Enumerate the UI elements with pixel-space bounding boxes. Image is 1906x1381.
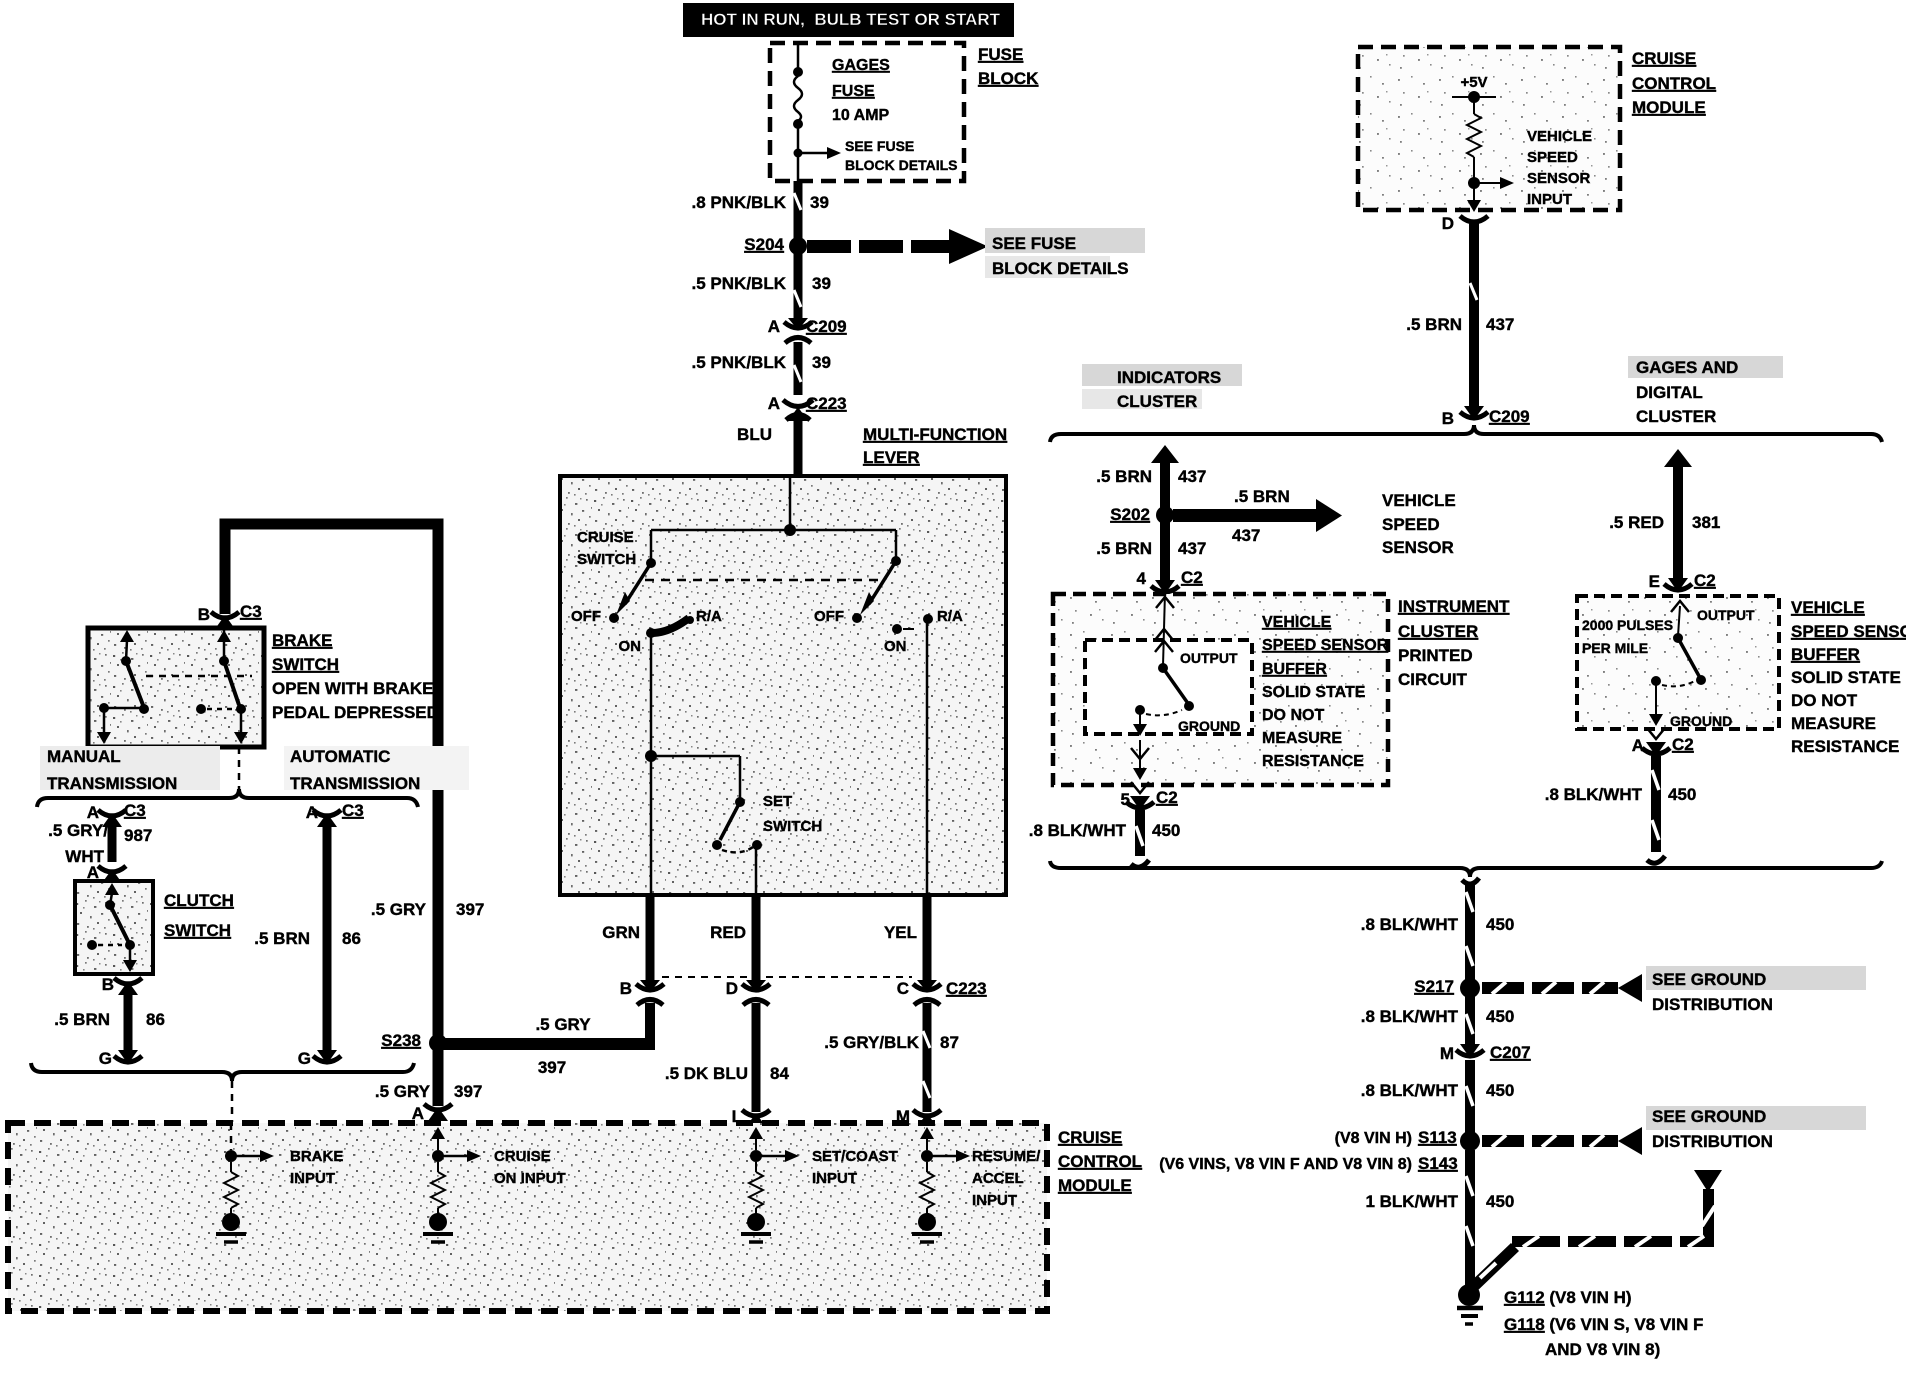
splice S113 / S143 labels [1159, 1128, 1458, 1173]
svg-text:CRUISE: CRUISE [577, 529, 634, 546]
svg-text:.5 BRN: .5 BRN [1096, 467, 1152, 486]
svg-text:DISTRIBUTION: DISTRIBUTION [1652, 1132, 1773, 1151]
svg-text:FUSE: FUSE [978, 45, 1023, 64]
wire gages buffer ground out [1647, 683, 1665, 739]
svg-text:FUSE: FUSE [832, 83, 875, 100]
svg-text:.5 PNK/BLK: .5 PNK/BLK [692, 274, 787, 293]
node vss input tap [1468, 177, 1514, 189]
label G112 G118 [1504, 1288, 1703, 1359]
label SEE GROUND DISTRIBUTION (S113) [1646, 1106, 1866, 1151]
wire branch to set switch [651, 756, 740, 800]
svg-text:GAGES: GAGES [832, 57, 890, 74]
svg-text:DO NOT: DO NOT [1791, 691, 1858, 710]
svg-text:2000 PULSES: 2000 PULSES [1582, 617, 1673, 633]
svg-text:SET: SET [763, 793, 792, 810]
wire .5 DK BLU 84 [665, 1003, 790, 1112]
connector C3 pin A (manual) [87, 801, 153, 845]
svg-text:GRN: GRN [602, 923, 640, 942]
svg-text:INPUT: INPUT [1527, 191, 1572, 208]
multi-function lever box [560, 476, 1006, 895]
cruise control module box (bottom) [8, 1123, 1047, 1311]
svg-text:MODULE: MODULE [1632, 98, 1706, 117]
svg-text:437: 437 [1232, 526, 1260, 545]
label CRUISE ON INPUT [494, 1148, 566, 1187]
wire .5 BRN 437 (to C209) [1406, 222, 1514, 408]
connector C3 pin A (automatic) [306, 801, 364, 827]
wire .8 BLK/WHT 450 (C207 to S113) [1361, 1060, 1515, 1133]
connector C2 pin E [1649, 571, 1716, 592]
svg-text:SEE GROUND: SEE GROUND [1652, 1107, 1766, 1126]
svg-text:S238: S238 [381, 1031, 421, 1050]
connector pin G (automatic) [298, 1049, 341, 1068]
svg-text:PEDAL DEPRESSED: PEDAL DEPRESSED [272, 703, 439, 722]
wire YEL [884, 895, 927, 982]
svg-text:B: B [620, 979, 632, 998]
svg-text:CONTROL: CONTROL [1632, 74, 1716, 93]
svg-text:381: 381 [1692, 513, 1720, 532]
connector pin A (clutch switch) [87, 863, 126, 883]
svg-text:INPUT: INPUT [972, 1192, 1017, 1209]
svg-text:.5 BRN: .5 BRN [1234, 487, 1290, 506]
splice S204 [744, 235, 807, 255]
connector C209 pin B [1442, 406, 1530, 428]
clutch switch contacts [87, 883, 137, 972]
svg-text:DIGITAL: DIGITAL [1636, 383, 1703, 402]
svg-text:BUFFER: BUFFER [1262, 661, 1327, 678]
svg-text:.5 DK BLU: .5 DK BLU [665, 1064, 748, 1083]
svg-text:B: B [102, 975, 114, 994]
svg-text:MODULE: MODULE [1058, 1176, 1132, 1195]
svg-text:MULTI-FUNCTION: MULTI-FUNCTION [863, 425, 1007, 444]
svg-text:S143: S143 [1418, 1154, 1458, 1173]
svg-text:SPEED SENSOR: SPEED SENSOR [1262, 637, 1389, 654]
wire .5 GRY 397 horizontal from S238 [434, 1015, 654, 1077]
cruise switch left pole [609, 530, 694, 638]
connector pin G (manual) [99, 1049, 142, 1068]
svg-text:.5 GRY: .5 GRY [375, 1082, 431, 1101]
connector C223 pin B [620, 979, 664, 1005]
svg-text:R/A: R/A [937, 608, 963, 625]
svg-text:.8 BLK/WHT: .8 BLK/WHT [1029, 821, 1127, 840]
svg-text:OUTPUT: OUTPUT [1180, 650, 1238, 666]
svg-text:437: 437 [1178, 467, 1206, 486]
power label HOT IN RUN BULB TEST OR START [683, 3, 1014, 37]
label SET SWITCH [763, 793, 822, 835]
wire buffer ground out [1131, 712, 1149, 793]
svg-text:DISTRIBUTION: DISTRIBUTION [1652, 995, 1773, 1014]
svg-text:+5V: +5V [1460, 74, 1487, 91]
brake switch left pole [97, 630, 149, 744]
wire .5 BRN 437 (indicators feed) [1096, 445, 1206, 582]
svg-text:ON: ON [884, 638, 907, 655]
cruise control module box (top right) [1358, 47, 1620, 210]
wire .5 BRN 86 (manual) [54, 988, 165, 1052]
connector pin L [732, 1107, 770, 1127]
wire RED [710, 895, 756, 982]
svg-text:84: 84 [770, 1064, 789, 1083]
wire .8 BLK/WHT 450 (S217 to C207) [1361, 996, 1515, 1046]
svg-text:.8 BLK/WHT: .8 BLK/WHT [1361, 1081, 1459, 1100]
svg-text:87: 87 [940, 1033, 959, 1052]
svg-text:CRUISE: CRUISE [1632, 49, 1696, 68]
wire .5 GRY 397 main run (L shape + down to module) [225, 524, 484, 1106]
svg-text:SEE GROUND: SEE GROUND [1652, 970, 1766, 989]
svg-text:.8 BLK/WHT: .8 BLK/WHT [1545, 785, 1643, 804]
svg-text:OUTPUT: OUTPUT [1697, 607, 1755, 623]
svg-text:S204: S204 [744, 235, 784, 254]
svg-text:C223: C223 [946, 979, 987, 998]
svg-text:VEHICLE: VEHICLE [1382, 491, 1456, 510]
svg-text:RED: RED [710, 923, 746, 942]
label VEHICLE SPEED SENSOR BUFFER SOLID STATE... (right) [1791, 598, 1906, 756]
svg-text:.5 BRN: .5 BRN [254, 929, 310, 948]
label MULTI-FUNCTION LEVER [863, 425, 1007, 467]
label GAGES AND DIGITAL CLUSTER [1628, 356, 1783, 426]
svg-text:C2: C2 [1694, 571, 1716, 590]
svg-text:CLUSTER: CLUSTER [1117, 392, 1197, 411]
svg-text:SPEED: SPEED [1382, 515, 1440, 534]
svg-text:397: 397 [538, 1058, 566, 1077]
dashed wire brace to module [231, 1081, 234, 1122]
svg-text:SWITCH: SWITCH [272, 655, 339, 674]
arrow .5 BRN 437 to vehicle speed sensor [1173, 487, 1342, 545]
svg-text:MEASURE: MEASURE [1791, 714, 1876, 733]
svg-text:SOLID STATE: SOLID STATE [1262, 684, 1366, 701]
svg-text:C3: C3 [124, 801, 146, 820]
connector C207 pin M [1440, 1043, 1531, 1063]
brake switch box [88, 628, 264, 747]
clutch switch box [75, 881, 153, 974]
connector C3 pin B [198, 602, 262, 629]
svg-text:450: 450 [1152, 821, 1180, 840]
svg-text:PRINTED: PRINTED [1398, 646, 1473, 665]
svg-text:BRAKE: BRAKE [290, 1148, 343, 1165]
label BRAKE INPUT [290, 1148, 343, 1187]
wire .5 GRY/BLK 87 [824, 1003, 959, 1112]
svg-text:4: 4 [1137, 569, 1147, 588]
wire .8 BLK/WHT 450 (cluster ground) [1029, 810, 1181, 867]
svg-text:OFF: OFF [814, 608, 844, 625]
svg-text:ON: ON [619, 638, 642, 655]
svg-text:SENSOR: SENSOR [1382, 538, 1454, 557]
svg-text:10 AMP: 10 AMP [832, 107, 890, 124]
connector pin M [896, 1107, 941, 1127]
svg-text:437: 437 [1178, 539, 1206, 558]
svg-text:SWITCH: SWITCH [763, 818, 822, 835]
wire .5 PNK/BLK 39 (lower) [794, 342, 801, 395]
svg-text:ACCEL: ACCEL [972, 1170, 1024, 1187]
svg-text:.5 GRY: .5 GRY [371, 900, 427, 919]
svg-text:SEE FUSE: SEE FUSE [992, 234, 1076, 253]
wire fuse to box bottom [797, 124, 800, 181]
svg-text:BLU: BLU [737, 425, 772, 444]
svg-text:TRANSMISSION: TRANSMISSION [290, 774, 420, 793]
arrow see fuse block details (inside) [798, 138, 958, 173]
svg-text:(V6 VINS, V8 VIN F AND V8 VIN: (V6 VINS, V8 VIN F AND V8 VIN 8) [1159, 1156, 1412, 1173]
svg-text:CLUTCH: CLUTCH [164, 891, 234, 910]
labels OFF ON R/A (right) [814, 608, 963, 655]
svg-text:450: 450 [1668, 785, 1696, 804]
label INSTRUMENT CLUSTER PRINTED CIRCUIT [1398, 597, 1510, 689]
wire .8 PNK/BLK 39 [794, 181, 801, 240]
svg-text:CLUSTER: CLUSTER [1636, 407, 1716, 426]
svg-text:HOT IN RUN, BULB TEST OR STAR: HOT IN RUN, BULB TEST OR START [701, 10, 1001, 29]
connector pin B (clutch) [102, 975, 142, 995]
label SET/COAST INPUT [812, 1148, 898, 1187]
hatched branch to ground distribution (antenna) [1466, 1170, 1722, 1294]
wire feed inside lever box [651, 478, 896, 536]
fuse block dashed box [770, 43, 964, 181]
svg-text:G118 (V6 VIN S, V8 VIN F: G118 (V6 VIN S, V8 VIN F [1504, 1315, 1703, 1334]
svg-text:D: D [1442, 214, 1454, 233]
svg-text:INSTRUMENT: INSTRUMENT [1398, 597, 1510, 616]
label GAGES FUSE 10 AMP [832, 57, 890, 124]
svg-text:BLOCK DETAILS: BLOCK DETAILS [845, 157, 958, 173]
connector C2 pin 4 [1137, 568, 1203, 594]
svg-text:C2: C2 [1672, 735, 1694, 754]
connector C223 pin D [726, 979, 770, 1005]
svg-text:C3: C3 [342, 801, 364, 820]
svg-text:.8 BLK/WHT: .8 BLK/WHT [1361, 1007, 1459, 1026]
svg-text:39: 39 [812, 274, 831, 293]
splice S217 [1414, 977, 1480, 998]
svg-text:397: 397 [454, 1082, 482, 1101]
svg-text:.5 RED: .5 RED [1609, 513, 1664, 532]
svg-text:INPUT: INPUT [290, 1170, 335, 1187]
svg-text:C: C [897, 979, 909, 998]
wire .8 BLK/WHT 450 (gages ground) [1545, 756, 1697, 863]
svg-text:D: D [726, 979, 738, 998]
svg-text:SPEED: SPEED [1527, 149, 1578, 166]
buffer switch [1135, 663, 1194, 715]
wire B down to S238 run [645, 1003, 655, 1050]
brace transmissions bottom [31, 1063, 414, 1081]
dashed wire below brake switch [238, 747, 241, 790]
node (see-fuse tap) [794, 149, 803, 158]
label AUTOMATIC TRANSMISSION [284, 746, 469, 793]
label VEHICLE SPEED SENSOR INPUT [1527, 128, 1592, 208]
svg-text:987: 987 [124, 826, 152, 845]
svg-text:A: A [768, 394, 780, 413]
svg-text:G: G [99, 1049, 112, 1068]
svg-text:.5 BRN: .5 BRN [1096, 539, 1152, 558]
svg-text:.5 GRY: .5 GRY [535, 1015, 591, 1034]
svg-text:CRUISE: CRUISE [1058, 1128, 1122, 1147]
vehicle speed sensor buffer box (inner) [1085, 640, 1252, 734]
brace indicators/gages section bottom [1050, 861, 1882, 877]
svg-text:CIRCUIT: CIRCUIT [1398, 670, 1468, 689]
hatched arrow see ground distribution (S217) [1482, 974, 1642, 1002]
svg-text:R/A: R/A [696, 608, 722, 625]
connector pin A (module) [424, 1104, 452, 1121]
connector C223 pin A [768, 394, 847, 421]
wire from ON contact down [645, 633, 657, 895]
svg-text:BLOCK: BLOCK [978, 69, 1039, 88]
svg-text:S202: S202 [1110, 505, 1150, 524]
svg-text:PER MILE: PER MILE [1582, 640, 1648, 656]
svg-text:.5 BRN: .5 BRN [54, 1010, 110, 1029]
svg-text:C223: C223 [806, 394, 847, 413]
svg-text:SET/COAST: SET/COAST [812, 1148, 898, 1165]
wire .5 BRN 86 (automatic) [254, 822, 361, 1052]
svg-text:GROUND: GROUND [1670, 713, 1732, 729]
hatched arrow see ground distribution (S113) [1482, 1127, 1642, 1155]
splice S113 node [1460, 1131, 1480, 1151]
svg-text:CONTROL: CONTROL [1058, 1152, 1142, 1171]
svg-text:(V8 VIN H): (V8 VIN H) [1335, 1130, 1412, 1147]
instrument cluster printed circuit box [1053, 594, 1388, 785]
brake switch link dashed [146, 675, 252, 678]
connector C223 dashed link [662, 976, 912, 978]
svg-text:OFF: OFF [571, 608, 601, 625]
svg-text:VEHICLE: VEHICLE [1262, 614, 1332, 631]
wire to pin D [1467, 183, 1481, 212]
svg-text:1 BLK/WHT: 1 BLK/WHT [1365, 1192, 1458, 1211]
wire BLU [737, 419, 798, 477]
wire .8 BLK/WHT 450 (to S217) [1361, 878, 1515, 980]
svg-text:39: 39 [810, 193, 829, 212]
svg-text:.5 PNK/BLK: .5 PNK/BLK [692, 353, 787, 372]
label SEE FUSE BLOCK DETAILS [985, 228, 1145, 278]
svg-text:MANUAL: MANUAL [47, 747, 121, 766]
svg-text:S113: S113 [1418, 1128, 1457, 1147]
svg-text:SPEED SENSOR: SPEED SENSOR [1791, 622, 1906, 641]
svg-text:E: E [1649, 572, 1660, 591]
svg-text:G: G [298, 1049, 311, 1068]
svg-text:G112 (V8 VIN H): G112 (V8 VIN H) [1504, 1288, 1632, 1307]
label .5 PNK/BLK 39 [692, 274, 831, 293]
switch link dashed line [645, 579, 884, 582]
label CRUISE SWITCH [577, 529, 636, 568]
svg-text:AUTOMATIC: AUTOMATIC [290, 747, 390, 766]
svg-text:.5 GRY/: .5 GRY/ [48, 821, 108, 840]
label VEHICLE SPEED SENSOR [1382, 491, 1456, 557]
wire 1 BLK/WHT 450 [1365, 1150, 1514, 1290]
svg-text:397: 397 [456, 900, 484, 919]
label CLUTCH SWITCH [164, 891, 234, 940]
svg-text:M: M [1440, 1044, 1454, 1063]
vehicle speed sensor buffer box (gages) [1577, 596, 1779, 729]
label MANUAL TRANSMISSION [40, 746, 220, 793]
label .8 PNK/BLK 39 [692, 193, 829, 212]
svg-text:RESISTANCE: RESISTANCE [1791, 737, 1899, 756]
label .5 PNK/BLK 39 [692, 353, 831, 372]
svg-text:GROUND: GROUND [1178, 718, 1240, 734]
brake switch right pole [196, 630, 248, 744]
dashed arrow to see fuse block details [807, 229, 988, 264]
svg-text:437: 437 [1486, 315, 1514, 334]
fuse F (GAGES FUSE 10 AMP) [793, 76, 803, 129]
svg-text:450: 450 [1486, 915, 1514, 934]
svg-text:86: 86 [146, 1010, 165, 1029]
svg-text:VEHICLE: VEHICLE [1527, 128, 1592, 145]
label 2000 PULSES PER MILE [1582, 617, 1673, 656]
resume/accel input circuit [912, 1127, 970, 1242]
connector C223 pin C [897, 979, 987, 1005]
label .5 GRY 397 / pin A at module [412, 1104, 424, 1123]
svg-text:S217: S217 [1414, 977, 1454, 996]
wire .5 PNK/BLK 39 (upper) [794, 252, 801, 320]
svg-text:TRANSMISSION: TRANSMISSION [47, 774, 177, 793]
svg-text:B: B [1442, 409, 1454, 428]
splice S202 [1110, 505, 1174, 524]
cruise switch right pole [852, 530, 933, 895]
svg-text:A: A [768, 317, 780, 336]
wire GRN [602, 895, 650, 982]
svg-text:C2: C2 [1156, 788, 1178, 807]
set/coast input circuit [741, 1127, 799, 1242]
svg-text:ON INPUT: ON INPUT [494, 1170, 566, 1187]
brace indicators/gages section top [1050, 425, 1882, 442]
label INDICATORS CLUSTER [1082, 364, 1242, 411]
svg-text:BRAKE: BRAKE [272, 631, 332, 650]
svg-text:450: 450 [1486, 1007, 1514, 1026]
svg-text:A: A [1632, 736, 1644, 755]
svg-text:450: 450 [1486, 1192, 1514, 1211]
svg-text:86: 86 [342, 929, 361, 948]
label FUSE BLOCK [978, 45, 1039, 88]
label BRAKE SWITCH OPEN WITH BRAKE PEDAL DEPRESSED [272, 631, 439, 722]
svg-text:CRUISE: CRUISE [494, 1148, 551, 1165]
svg-text:450: 450 [1486, 1081, 1514, 1100]
svg-text:GAGES AND: GAGES AND [1636, 358, 1738, 377]
svg-text:SOLID STATE: SOLID STATE [1791, 668, 1901, 687]
svg-text:AND V8 VIN 8): AND V8 VIN 8) [1545, 1340, 1660, 1359]
wire into fuse [797, 43, 800, 70]
svg-text:INPUT: INPUT [812, 1170, 857, 1187]
svg-text:.5 BRN: .5 BRN [1406, 315, 1462, 334]
splice S238 [381, 1031, 447, 1052]
svg-text:RESUME/: RESUME/ [972, 1148, 1041, 1165]
svg-text:C3: C3 [240, 602, 262, 621]
label SEE GROUND DISTRIBUTION (S217) [1646, 966, 1866, 1014]
svg-text:INDICATORS: INDICATORS [1117, 368, 1221, 387]
labels OFF ON R/A (left) [571, 608, 722, 655]
resistor (speed sensor pull-up) [1467, 97, 1481, 178]
svg-text:SWITCH: SWITCH [577, 551, 636, 568]
set switch [712, 797, 762, 895]
svg-text:C209: C209 [806, 317, 847, 336]
svg-text:C209: C209 [1489, 407, 1530, 426]
label CRUISE CONTROL MODULE (top right) [1632, 49, 1716, 117]
brake input circuit [216, 1123, 274, 1242]
svg-text:.8 PNK/BLK: .8 PNK/BLK [692, 193, 787, 212]
svg-text:SEE FUSE: SEE FUSE [845, 138, 914, 154]
node (fuse top) [793, 67, 803, 77]
svg-text:YEL: YEL [884, 923, 917, 942]
svg-text:.8 BLK/WHT: .8 BLK/WHT [1361, 915, 1459, 934]
svg-text:.5 GRY/BLK: .5 GRY/BLK [824, 1033, 919, 1052]
svg-text:39: 39 [812, 353, 831, 372]
svg-text:OPEN WITH BRAKE: OPEN WITH BRAKE [272, 679, 434, 698]
connector pin D [1442, 214, 1488, 233]
wire .5 RED 381 [1609, 449, 1720, 580]
svg-text:VEHICLE: VEHICLE [1791, 598, 1865, 617]
gages buffer switch [1651, 601, 1706, 686]
svg-text:BLOCK DETAILS: BLOCK DETAILS [992, 259, 1129, 278]
svg-text:C207: C207 [1490, 1043, 1531, 1062]
svg-text:BUFFER: BUFFER [1791, 645, 1860, 664]
+5V supply [1452, 74, 1496, 103]
label VEHICLE SPEED SENSOR BUFFER SOLID STATE DO NOT MEASURE RESISTANCE [1262, 614, 1389, 770]
cruise on input circuit [423, 1127, 481, 1242]
svg-text:C2: C2 [1181, 568, 1203, 587]
wire into buffer (output) [1155, 592, 1174, 666]
connector C2 pin 5 [1121, 788, 1178, 810]
connector C2 pin A [1632, 735, 1694, 756]
brace transmissions top [37, 789, 418, 807]
svg-text:DO NOT: DO NOT [1262, 707, 1324, 724]
